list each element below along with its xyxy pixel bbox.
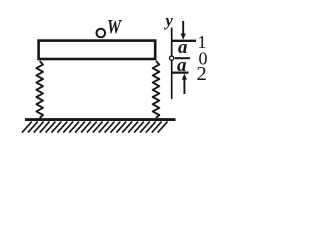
- tick level 1: [171, 40, 196, 42]
- ground line: [25, 118, 176, 121]
- svg-text:a: a: [177, 55, 187, 76]
- tick level 0: [175, 57, 190, 59]
- tick level 2: [171, 71, 189, 73]
- dimension arrow down to level 1: [181, 21, 186, 40]
- svg-text:2: 2: [197, 63, 207, 85]
- spring right: [153, 61, 160, 118]
- dimension arrow up to level 2: [182, 74, 187, 94]
- spring left: [36, 61, 43, 118]
- axis reference line: [171, 28, 173, 100]
- ball W: [97, 29, 106, 38]
- node circle at level 0: [170, 56, 174, 60]
- ground hatching: [22, 122, 168, 133]
- svg-text:W: W: [107, 17, 122, 38]
- svg-text:y: y: [164, 11, 174, 30]
- plate (platform on springs): [39, 41, 156, 59]
